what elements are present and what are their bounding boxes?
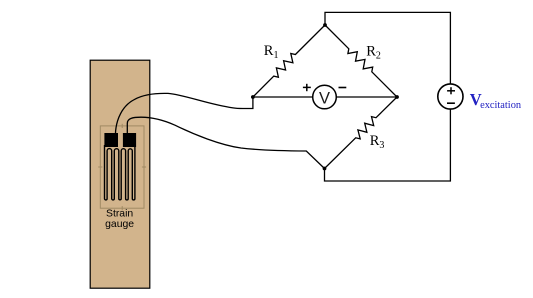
- source polarity +: [447, 87, 455, 94]
- resistor R3 (between right node and bottom node): [325, 97, 398, 169]
- svg-text:Strain: Strain: [106, 209, 133, 220]
- wire from right pad to bridge bottom node: [127, 117, 324, 168]
- strain gauge solder pad left: [104, 133, 118, 147]
- svg-text:V: V: [319, 90, 330, 108]
- wire: voltmeter to right node: [336, 96, 397, 98]
- source polarity -: [447, 102, 455, 104]
- node: left: [251, 95, 255, 99]
- svg-text:gauge: gauge: [105, 219, 134, 230]
- strain gauge backing film outline: [98, 124, 146, 211]
- excitation source circle: [438, 84, 463, 109]
- strain gauge serpentine grid: [105, 145, 135, 200]
- voltmeter polarity -: [339, 87, 347, 89]
- node: right: [395, 95, 399, 99]
- test specimen (tan bar): [90, 60, 150, 288]
- wire: left node to voltmeter: [253, 96, 313, 98]
- voltmeter polarity +: [303, 84, 311, 91]
- wire from left pad to bridge left node: [115, 93, 253, 134]
- node: bottom: [323, 167, 327, 171]
- node: top: [323, 23, 327, 27]
- resistor R2 (between top node and right node): [325, 25, 397, 97]
- voltmeter V: [313, 85, 337, 109]
- wire: bottom rail from bottom node to excitation source: [325, 109, 451, 181]
- resistor R1 (between top node and left node): [253, 25, 325, 97]
- wire: top rail from top node to excitation source: [325, 12, 450, 84]
- strain gauge solder pad right: [123, 133, 136, 147]
